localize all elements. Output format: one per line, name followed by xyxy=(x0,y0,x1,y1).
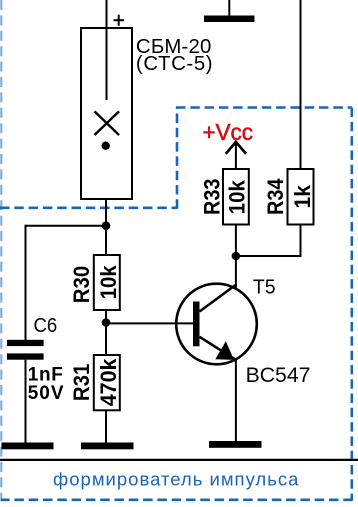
svg-text:50V: 50V xyxy=(28,383,64,404)
svg-text:T5: T5 xyxy=(253,277,276,299)
svg-text:R33: R33 xyxy=(200,179,225,216)
svg-text:470k: 470k xyxy=(96,358,121,407)
svg-text:R34: R34 xyxy=(263,178,288,215)
svg-text:BC547: BC547 xyxy=(246,364,311,387)
svg-text:C6: C6 xyxy=(34,315,58,337)
svg-text:10k: 10k xyxy=(225,180,250,215)
svg-text:1k: 1k xyxy=(290,184,315,208)
svg-text:R31: R31 xyxy=(69,364,94,401)
svg-text:R30: R30 xyxy=(69,266,94,303)
svg-text:+Vcc: +Vcc xyxy=(203,119,254,145)
svg-text:формирователь импульса: формирователь импульса xyxy=(53,468,299,489)
svg-text:10k: 10k xyxy=(96,265,121,300)
svg-text:(СТС-5): (СТС-5) xyxy=(136,53,213,75)
